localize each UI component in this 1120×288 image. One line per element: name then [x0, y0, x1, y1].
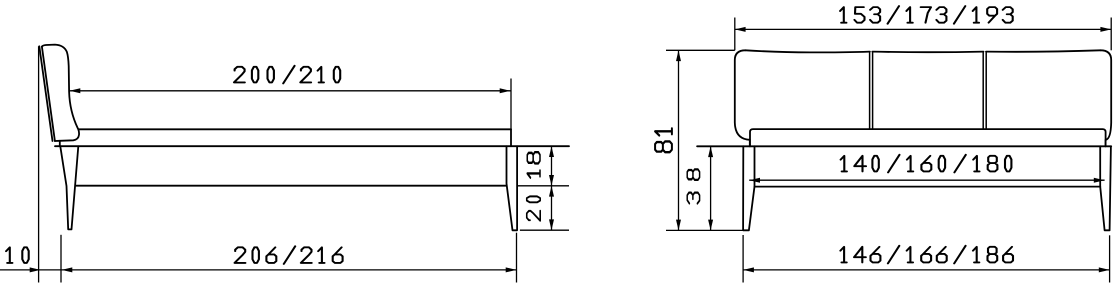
- rear leg (side view): [60, 146, 78, 229]
- label text 146/166/186: [840, 246, 1013, 264]
- headboard top edge (sagging cushions): [746, 50, 870, 52]
- label text 81: [655, 128, 672, 152]
- label text 206/216: [235, 246, 343, 264]
- label text 153/173/193: [840, 6, 1013, 24]
- dim 140/160/180: [749, 179, 1104, 181]
- front leg (side view): [507, 146, 518, 230]
- left leg (front view): [743, 146, 754, 230]
- dim 153/173/193: [734, 18, 736, 51]
- dim 18: [518, 145, 570, 147]
- dim 200/210 line: [69, 90, 510, 92]
- right leg (front view): [1100, 146, 1111, 230]
- dim 206/216 + 10 bottom: [38, 46, 40, 282]
- headboard cushion (side view): [42, 45, 79, 141]
- label text 18: [527, 152, 540, 178]
- label text 140/160/180: [841, 155, 1012, 173]
- dim 146/166/186: [742, 235, 744, 283]
- dim 20: [520, 229, 569, 231]
- headboard outline (front view): [735, 50, 750, 146]
- front rail face: [750, 129, 1106, 146]
- side rail bottom line: [76, 185, 507, 187]
- full-width frame line: [697, 145, 1111, 147]
- dim 81: [666, 49, 735, 51]
- dim 200/210 right extension: [510, 79, 512, 130]
- headboard back panel (side view): [39, 46, 52, 141]
- label text 20: [527, 196, 540, 220]
- headboard division lines: [869, 52, 871, 130]
- label text 38: [687, 169, 699, 203]
- rail bottom line (front view): [755, 186, 1101, 188]
- platform right end edge: [510, 129, 512, 146]
- dim 38: [710, 146, 712, 230]
- mattress platform top line: [79, 128, 512, 130]
- side rail top line: [55, 145, 569, 147]
- cushion bottom step: [59, 141, 61, 146]
- label text 10: [6, 247, 29, 263]
- label text 200/210: [234, 66, 340, 84]
